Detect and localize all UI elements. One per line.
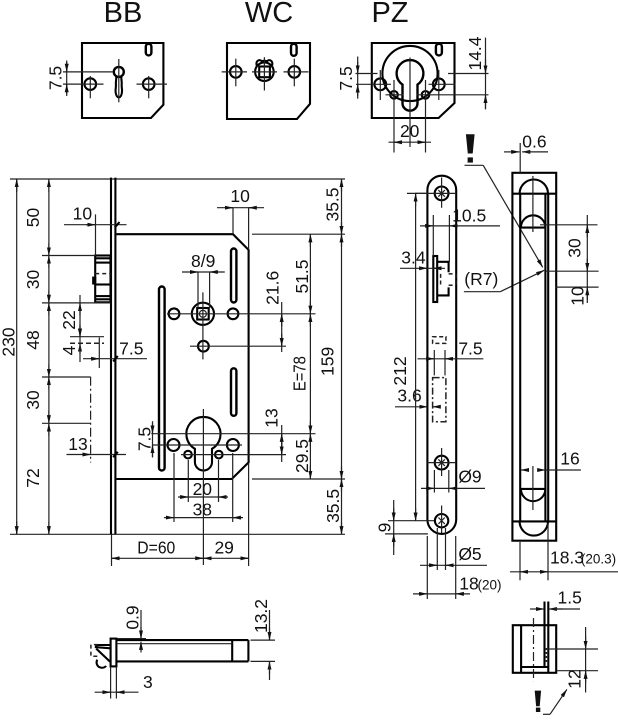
slot upper right <box>231 249 236 303</box>
svg-text:3.6: 3.6 <box>397 386 421 406</box>
svg-text:18.3: 18.3 <box>550 548 584 568</box>
bottom screw hole torx <box>435 506 448 534</box>
extension line 22 bottom <box>70 336 104 338</box>
svg-text:35.5: 35.5 <box>323 187 343 221</box>
svg-text:0.6: 0.6 <box>522 132 546 152</box>
label R7 with leader <box>464 269 544 292</box>
svg-text:0.9: 0.9 <box>123 605 143 629</box>
extension line latch bottom <box>42 302 111 304</box>
plate PZ right screw hole <box>433 78 445 90</box>
side view lock body <box>116 640 248 661</box>
svg-text:14.4: 14.4 <box>465 36 485 70</box>
centerline cylinder vertical <box>202 409 204 565</box>
dimension 12 <box>547 627 598 693</box>
middle dashed slot <box>433 337 446 344</box>
centerline cylinder screws horizontal <box>153 444 243 446</box>
dimension 0.9 <box>117 605 146 652</box>
dimension 7.5 front plate <box>418 339 484 376</box>
channel slot right outer edge <box>547 194 549 522</box>
latch bolt front view <box>93 256 110 303</box>
dimension 1.5 <box>530 588 582 610</box>
deadbolt dashed cutout <box>433 378 446 422</box>
plate PZ cylinder keyhole <box>397 60 424 111</box>
svg-text:13.2: 13.2 <box>251 599 271 633</box>
dimension 10 channel <box>556 286 599 306</box>
svg-text:159: 159 <box>318 347 338 376</box>
dimension 8/9 follower <box>182 251 225 308</box>
plate WC outline <box>227 43 310 119</box>
svg-text:10.5: 10.5 <box>452 206 486 226</box>
follower square spindle <box>192 303 214 325</box>
svg-text:(20.3): (20.3) <box>581 552 616 567</box>
plate BB keyhole <box>114 67 124 98</box>
dimension chain 51.5 E78 29.5 <box>289 234 312 479</box>
channel inner cap bottom R7 <box>521 489 546 501</box>
svg-text:7.5: 7.5 <box>119 339 143 359</box>
svg-text:7.5: 7.5 <box>45 66 65 90</box>
centerline small holes horizontal <box>181 454 286 456</box>
dimension 9 bottom <box>375 500 429 555</box>
svg-text:20: 20 <box>400 121 420 141</box>
dimension 22 <box>59 295 80 345</box>
svg-text:51.5: 51.5 <box>292 259 312 293</box>
dimension 3.6 <box>395 386 441 407</box>
svg-text:20: 20 <box>193 479 213 499</box>
svg-text:4: 4 <box>59 345 79 355</box>
svg-text:10: 10 <box>73 204 93 224</box>
cylinder screw hole right <box>227 439 239 451</box>
cylinder screw hole left <box>168 439 180 451</box>
dimension 13 cylinder <box>262 408 282 462</box>
main view bottom extension line <box>10 533 345 535</box>
svg-text:Ø5: Ø5 <box>458 544 481 564</box>
dimension 18.3 (20.3) <box>510 523 618 580</box>
plate WC right hole <box>289 66 301 78</box>
svg-text:29: 29 <box>214 538 233 558</box>
dimension 230 <box>0 179 19 534</box>
plate BB right hole <box>143 78 155 90</box>
dimension 3 <box>95 666 153 698</box>
svg-text:7.5: 7.5 <box>336 66 356 90</box>
plate BB centerlines <box>63 59 167 102</box>
svg-text:(R7): (R7) <box>464 269 498 289</box>
svg-text:21.6: 21.6 <box>263 271 283 305</box>
dimension 7.5 BB <box>45 61 66 97</box>
extension line case bottom right <box>252 478 345 480</box>
svg-text:3.4: 3.4 <box>401 248 426 268</box>
channel inner cap top R7 <box>521 215 546 227</box>
svg-text:8/9: 8/9 <box>191 251 215 271</box>
centerline follower vertical <box>202 292 204 359</box>
plate WC turn knob <box>255 60 274 81</box>
dimension 21.6 <box>263 271 283 352</box>
svg-text:12: 12 <box>565 669 585 688</box>
svg-text:7.5: 7.5 <box>135 427 155 451</box>
dimension D=60 and 29 <box>112 463 249 566</box>
svg-text:50: 50 <box>23 208 43 228</box>
extension line 48-30 boundary <box>42 376 91 378</box>
dimension 20 cylinder <box>178 460 228 502</box>
plate PZ small hole right <box>422 91 430 99</box>
plate BB left hole <box>85 78 97 90</box>
channel outer cap top <box>520 179 548 193</box>
svg-text:22: 22 <box>59 310 79 329</box>
plate WC top slot <box>291 44 297 56</box>
plate PZ centerlines <box>356 58 489 153</box>
svg-text:38: 38 <box>193 500 212 520</box>
channel centerline <box>532 176 534 510</box>
plate BB outline <box>82 43 163 118</box>
dimension 20 PZ <box>389 121 432 142</box>
dimension 13.2 <box>251 599 276 680</box>
svg-text:13: 13 <box>262 408 282 427</box>
hidden line dashed <box>70 342 104 344</box>
channel inner cap line bottom <box>520 488 545 490</box>
hole left of follower <box>169 308 180 319</box>
dimension 3.4 <box>400 248 445 269</box>
svg-text:29.5: 29.5 <box>292 439 312 473</box>
dimension diameter 9 <box>421 467 485 493</box>
svg-text:7.5: 7.5 <box>458 339 482 359</box>
svg-text:Ø9: Ø9 <box>458 467 481 487</box>
plate WC left hole <box>230 66 242 78</box>
cylinder keyhole main view <box>186 417 220 471</box>
plate BB top slot <box>146 44 152 56</box>
dimension chain 50 30 48 30 72 <box>23 179 49 534</box>
dimension 38 cylinder <box>164 453 243 522</box>
svg-text:16: 16 <box>560 449 579 469</box>
dimension diameter 5 <box>420 528 487 570</box>
svg-text:9: 9 <box>375 523 395 533</box>
channel inner cap line <box>520 227 545 229</box>
centerline cylinder horizontal <box>151 433 315 435</box>
svg-text:3: 3 <box>143 672 153 692</box>
plate PZ top slot <box>436 44 442 56</box>
latch cutout front plate <box>433 256 456 302</box>
channel slot right inner edge <box>544 194 546 522</box>
channel outer cap bottom <box>520 521 548 535</box>
dimension 13 <box>67 434 127 457</box>
svg-text:13: 13 <box>68 434 87 454</box>
faceplate back edge <box>114 178 116 535</box>
svg-text:10: 10 <box>568 286 588 306</box>
warning mark bottom with leader <box>535 689 567 714</box>
dimension 30 channel <box>540 215 599 303</box>
long slot left <box>159 287 165 471</box>
dimension 212 <box>388 193 435 520</box>
svg-text:212: 212 <box>390 356 410 385</box>
centerline lower hole horizontal <box>190 345 286 347</box>
side view latch nose <box>91 645 111 668</box>
centerline follower horizontal <box>167 313 316 315</box>
extension line 30-72 boundary <box>42 422 91 424</box>
front faceplate outline <box>427 176 456 534</box>
channel seam line bottom <box>512 520 556 522</box>
channel bar outline <box>512 173 556 541</box>
axis dash-dot line <box>90 377 92 463</box>
dimension 10 top right <box>217 186 264 250</box>
side view faceplate bar <box>111 639 117 667</box>
dimension 0.6 <box>504 132 548 173</box>
dimension 16 <box>521 449 581 471</box>
svg-text:35.5: 35.5 <box>323 489 343 523</box>
dimension chain 35.5 159 35.5 <box>318 179 344 534</box>
plate WC centerlines <box>222 57 309 90</box>
dimension 10.5 <box>420 206 500 262</box>
svg-text:72: 72 <box>23 468 43 487</box>
dimension 10 latch projection <box>64 204 127 256</box>
plate PZ rosette circle <box>382 46 437 101</box>
hole right of follower <box>228 308 239 319</box>
dimension 7.5 cylinder <box>135 421 155 457</box>
svg-text:30: 30 <box>565 238 585 258</box>
dimension 18 (20) <box>413 536 502 599</box>
dimension 4 <box>59 326 80 362</box>
svg-text:(20): (20) <box>477 578 501 593</box>
channel seam line top <box>512 193 556 195</box>
extension line latch top <box>42 255 96 257</box>
svg-text:18: 18 <box>459 574 478 594</box>
dimension 7.5 PZ <box>336 57 358 99</box>
svg-text:30: 30 <box>23 270 43 290</box>
slot lower right <box>231 368 236 416</box>
svg-text:BB: BB <box>104 0 143 29</box>
middle screw hole torx <box>427 448 456 476</box>
svg-text:PZ: PZ <box>371 0 408 29</box>
svg-text:WC: WC <box>245 0 293 29</box>
plate PZ left screw hole <box>374 78 386 90</box>
dimension 7.5 latch backset <box>83 338 147 369</box>
svg-text:230: 230 <box>0 327 19 356</box>
channel slot left edge <box>519 194 521 522</box>
svg-text:E=78: E=78 <box>289 356 309 391</box>
svg-text:1.5: 1.5 <box>558 588 582 608</box>
channel section box <box>513 602 556 682</box>
dimension 14.4 PZ <box>465 36 486 109</box>
svg-text:30: 30 <box>23 390 43 410</box>
svg-text:48: 48 <box>23 330 43 349</box>
plate PZ small hole left <box>390 91 398 99</box>
lock case outline <box>116 234 248 479</box>
faceplate front edge <box>110 178 112 535</box>
main view top extension line <box>10 178 345 180</box>
small hole right of cylinder <box>215 451 223 459</box>
extension line case top right <box>252 233 345 235</box>
top screw hole torx <box>415 178 456 208</box>
small hole left of cylinder <box>184 451 192 459</box>
svg-text:D=60: D=60 <box>137 538 175 558</box>
warning mark top <box>465 134 543 267</box>
svg-text:10: 10 <box>230 186 250 206</box>
plate PZ outline <box>372 43 455 118</box>
hole below follower <box>198 341 209 352</box>
